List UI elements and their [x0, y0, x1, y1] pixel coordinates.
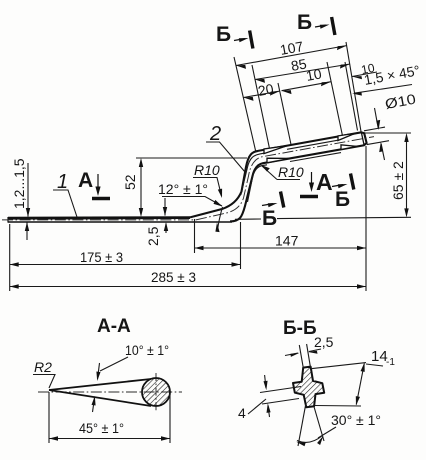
chamfer 1,5 x 45 [352, 62, 421, 96]
dim 65 +-2 [365, 133, 411, 217]
R10 left [193, 162, 222, 198]
cross shape [293, 367, 324, 408]
svg-text:147: 147 [275, 233, 299, 249]
groove inner line bottom [290, 153, 341, 162]
svg-text:2,5: 2,5 [145, 226, 161, 246]
extension line from W2 tip up (serves 20/10) [278, 83, 291, 145]
svg-text:285 ± 3: 285 ± 3 [151, 269, 196, 285]
svg-text:65 ± 2: 65 ± 2 [390, 161, 406, 200]
section B marker top 1 [216, 23, 253, 49]
svg-text:20: 20 [257, 80, 275, 99]
strip bottom edge [8, 221, 232, 223]
inner groove lines riser [241, 153, 264, 195]
groove runout wedge W1 (top-left) [264, 146, 287, 154]
groove runout wedge W3 (top-right) [338, 133, 355, 140]
groove inner line top (between wedges) [287, 140, 338, 149]
svg-text:А: А [316, 169, 333, 195]
svg-text:-1: -1 [386, 357, 395, 368]
dim 285 +-3 [10, 269, 366, 289]
svg-text:А-А: А-А [97, 316, 131, 337]
svg-text:Б: Б [335, 188, 350, 211]
svg-text:45° ± 1°: 45° ± 1° [79, 420, 124, 436]
section B marker lower 1 [262, 192, 284, 231]
svg-text:R10: R10 [194, 162, 220, 178]
centerline horizontal [38, 391, 182, 393]
wedge lines [49, 379, 151, 390]
centerline vertical [155, 373, 157, 412]
angle 12 deg callout [158, 181, 223, 232]
svg-text:Б: Б [297, 11, 312, 34]
svg-text:R10: R10 [278, 164, 304, 180]
svg-text:А: А [78, 169, 93, 192]
dia 10 callout [364, 91, 417, 160]
svg-text:R2: R2 [34, 359, 52, 375]
centerline through part [2, 219, 196, 221]
svg-text:12° ± 1°: 12° ± 1° [158, 181, 208, 197]
left end cap [7, 217, 9, 223]
svg-text:30° ± 1°: 30° ± 1° [331, 412, 381, 428]
extension line bar end (serves 107,85 right) [346, 42, 361, 132]
dim 52 [122, 158, 247, 217]
view A marker (left) [78, 169, 110, 199]
groove runout wedge W4 (bottom-right) [341, 145, 357, 150]
upper contour: 12deg slope, riser, bar top [190, 132, 367, 221]
section B marker top 2 [297, 11, 335, 35]
45 deg dim [48, 392, 50, 443]
strip top edge [8, 216, 190, 219]
svg-text:4: 4 [238, 405, 246, 421]
label 2 [206, 123, 245, 172]
chamfer line at bar end [361, 133, 364, 146]
extension line from W1 left end up (serves 85) + section cut B1 top [252, 65, 270, 149]
svg-text:10: 10 [305, 65, 323, 84]
svg-text:175 ± 3: 175 ± 3 [80, 249, 123, 265]
svg-text:1,2...1,5: 1,2...1,5 [11, 158, 27, 209]
dim 107 [236, 38, 347, 69]
label 1 [53, 171, 77, 217]
part body (side view) [8, 132, 367, 222]
groove runout wedge W2 (bottom-left) [267, 158, 290, 163]
long extension line y~218.5 right of bend (65 dim bottom ref) [235, 217, 411, 219]
bottom dims extension lines [9, 224, 11, 291]
extension line from W3 base up (serves mid 10) [327, 62, 343, 136]
svg-text:52: 52 [122, 174, 138, 190]
hatched circle [142, 378, 170, 406]
dim 10 right (value on shelf) [352, 61, 377, 80]
dim 1,2...1,5 [11, 158, 30, 240]
view A marker (right) [300, 169, 333, 197]
svg-text:2,5: 2,5 [314, 334, 334, 350]
dim 10 middle [282, 65, 332, 94]
dim 20 [244, 80, 281, 101]
dim 147 [195, 233, 367, 251]
dim 175 +-3 [10, 249, 241, 267]
svg-text:10° ± 1°: 10° ± 1° [125, 342, 169, 358]
extension line from shoulder up (serves 107,20) [234, 57, 256, 153]
extension line chamfer [345, 62, 358, 131]
30 deg construction [298, 404, 306, 446]
svg-text:Б: Б [262, 207, 277, 230]
R10 right [261, 164, 304, 180]
dim 2,5 [145, 198, 168, 246]
svg-text:Б-Б: Б-Б [283, 318, 317, 339]
svg-text:Б: Б [216, 23, 231, 46]
section B marker lower 2 [332, 174, 354, 212]
dim 85 [255, 55, 350, 83]
